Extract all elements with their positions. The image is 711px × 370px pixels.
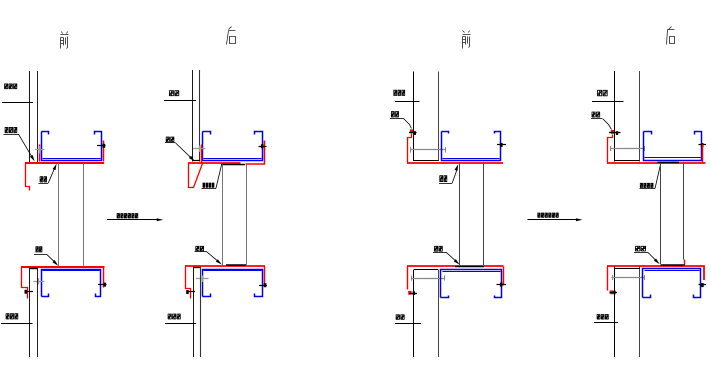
level line top (P3): [395, 101, 420, 103]
screw fastener (P3 bottom-left): [409, 293, 417, 295]
fastener cross gray (P2 top): [193, 148, 206, 150]
stud inner line (P3 bottom): [438, 270, 440, 358]
screw fastener (P4 bottom-right): [699, 284, 707, 286]
red edge right (P2 top): [264, 141, 266, 165]
wall panel inner line (P1 top): [37, 71, 39, 162]
through bolt gray (P4 bottom): [612, 277, 645, 279]
label 隔墙板 bottom (P4): [597, 314, 601, 319]
wall panel outer line (P2 bottom): [193, 267, 195, 358]
stud inner line (P3 top): [438, 72, 440, 162]
label 支托 leader (P2 top): [166, 137, 170, 143]
red trim (P4 bottom-left): [607, 267, 609, 291]
red flange line (P4 top): [607, 162, 706, 164]
label 节点做法调整 (arrow 2): [538, 213, 541, 218]
label 焊缝 leader (P3): [440, 175, 444, 182]
level line top (P1): [2, 102, 33, 104]
through bolt gray (P4 top): [611, 148, 646, 150]
stud cap (P3 bottom): [414, 269, 438, 271]
screw fastener (P2 bottom-right): [259, 285, 267, 287]
fastener cross gray (P1 top): [35, 149, 45, 151]
screw fastener (P1 top-right): [97, 145, 106, 147]
beam web line left (P4): [660, 164, 662, 265]
red flange line (P3 top): [407, 162, 503, 164]
title 前 (panel 3): [463, 31, 471, 49]
wall panel inner line (P1 bottom): [37, 268, 39, 358]
screw fastener (P2 bottom-left): [187, 291, 196, 293]
wall panel outer line (P1 top): [29, 71, 31, 162]
screw fastener (P4 bottom-left): [610, 292, 618, 294]
web cap black segment (P4 bottom): [661, 264, 685, 266]
red edge left (P3 bottom): [407, 267, 409, 290]
stud cap (P3 top): [414, 160, 439, 162]
girt C-channel blue (P2 top): [203, 132, 263, 161]
label 隔墙板 bottom (P3): [396, 314, 400, 319]
label 彩钢板 top (P2): [169, 90, 174, 96]
red anchor dot (P3 top): [410, 129, 413, 133]
beam web line left (P3): [459, 164, 461, 266]
girt C-channel blue (P3 bottom): [441, 270, 502, 298]
label 彩钢板 bottom (P2): [168, 314, 172, 320]
level line top (P4): [592, 101, 624, 103]
red edge right (P4 top): [702, 145, 704, 164]
fastener cross gray (P1 bottom): [34, 281, 45, 283]
stud outer line (P3 top): [413, 72, 415, 162]
through bolt gray (P3 bottom): [411, 278, 445, 280]
red trim step (P2 bottom-left): [186, 267, 191, 299]
label 隔墙板 top (P3): [394, 90, 397, 96]
level line bottom (P2): [165, 323, 196, 325]
label 彩钢板 bottom (P1): [6, 313, 10, 319]
red edge right (P3 bottom): [503, 267, 505, 286]
stud cap (P4 bottom): [615, 268, 641, 270]
beam web line right (P4): [683, 164, 685, 260]
revision arrow 2: [528, 219, 577, 221]
beam web line right (P1): [83, 164, 85, 267]
level line bottom (P4): [594, 322, 618, 324]
label 支托 leader (P1 top-left): [5, 127, 9, 133]
label 支托 leader (P4 top): [592, 112, 596, 118]
web cap black segment (P4 top): [658, 162, 680, 164]
beam web line left (P2): [222, 165, 224, 266]
screw fastener (P1 bottom-right): [98, 284, 107, 286]
label 支托 leader (P3 bottom): [434, 246, 438, 252]
title 后 (panel 2): [227, 27, 236, 45]
red edge (P2 bottom-right): [264, 267, 266, 286]
level line bottom (P1): [1, 323, 33, 325]
label 支托 leader (P3 top): [391, 111, 395, 117]
label 焊 leader (P1 mid-top): [40, 176, 43, 182]
girt C-channel blue (P2 bottom): [203, 270, 263, 297]
red angle (P3 top-left): [408, 134, 412, 163]
through bolt gray (P3 top): [411, 149, 447, 151]
red support bracket (P2): [189, 164, 203, 188]
red angle flange (P1 top): [39, 145, 41, 162]
screw fastener (P1 bottom-left): [25, 291, 34, 293]
wall panel inner line (P2 bottom): [200, 267, 202, 358]
label 支托 leader (P2 bottom): [196, 246, 200, 251]
level line top (P2): [164, 100, 196, 102]
web cap black segment (P3 bottom): [455, 266, 484, 268]
label 彩钢板 top (P1): [4, 84, 8, 90]
label 支托 leader (P1 mid-bottom): [36, 246, 39, 252]
label 隔墙板 top (P4): [597, 90, 602, 96]
red flange line (P4 bottom): [607, 266, 704, 280]
red anchor dot (P3 bottom): [408, 291, 411, 295]
beam web line right (P2): [246, 165, 248, 266]
wall panel inner line (P2 top): [199, 70, 201, 162]
girt C-channel blue (P1 top): [42, 132, 102, 161]
wall panel outer line (P2 top): [192, 70, 194, 162]
title 后 (panel 4): [667, 27, 675, 45]
web cap black segment (P2 bottom): [226, 264, 246, 266]
wall panel cap (P1 bottom): [29, 268, 37, 270]
stud outer line (P3 bottom): [413, 270, 415, 358]
title 前 (panel 1): [61, 32, 69, 49]
label 节点做法调整 (arrow 1): [117, 213, 120, 218]
girt C-channel blue (P4 top): [644, 132, 702, 161]
stud cap (P4 top): [615, 160, 640, 162]
girt C-channel blue (P4 bottom): [643, 269, 701, 298]
girt C-channel blue (P1 bottom): [42, 270, 101, 297]
red flange line (P2 top): [188, 162, 241, 164]
revision arrow 1: [107, 219, 158, 221]
screw fastener (P3 bottom-right): [497, 284, 507, 286]
red trim step (P1 bottom-left): [22, 268, 28, 299]
beam web line right (P3): [483, 164, 485, 266]
stud outer line (P4 bottom): [614, 267, 616, 358]
web cap black segment (P2 top): [221, 164, 245, 166]
red edge (P1 bottom-right): [103, 268, 105, 288]
red flange line (P3 bottom): [407, 265, 504, 267]
screw fastener (P3 top-right): [497, 144, 506, 146]
fastener cross gray (P2 bottom): [196, 278, 209, 280]
red edge left (P2 top): [201, 145, 203, 163]
girt C-channel blue (P3 top): [442, 132, 501, 161]
label 平行檩条 leader (P2): [203, 183, 205, 188]
red angle (P4 top-left): [608, 135, 613, 164]
screw fastener (P2 top-right): [259, 146, 267, 148]
red flange line (P1 bottom): [21, 266, 105, 268]
label 支托 leader (P4 bottom): [635, 246, 640, 251]
wall panel cap (P2 bottom): [194, 267, 201, 269]
level line bottom (P3): [395, 323, 421, 325]
red trim step (P1 top-left): [26, 164, 30, 191]
red flange line (P2 bottom): [185, 265, 265, 267]
beam web line left (P1): [58, 164, 60, 267]
red anchor dot (P4 top): [611, 130, 614, 134]
stud outer line (P4 top): [614, 71, 616, 162]
stud inner line (P4 bottom): [639, 267, 641, 358]
label 平行檩条 leader (P4): [640, 183, 643, 188]
red web stub (P4): [684, 260, 686, 267]
stud inner line (P4 top): [639, 71, 641, 162]
screw fastener (P4 top-left): [609, 132, 621, 134]
screw fastener (P3 top-left): [409, 132, 417, 134]
wall panel outer line (P1 bottom): [29, 268, 31, 358]
wall panel cap (P2 top): [193, 160, 201, 162]
red anchor dot (P4 bottom): [610, 290, 613, 294]
screw fastener (P4 top-right): [699, 144, 707, 146]
